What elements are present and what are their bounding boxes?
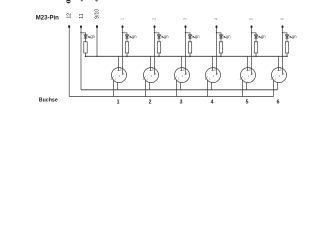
svg-text:3: 3 <box>119 74 121 78</box>
wire: 0V bus drop to socket 4 <box>212 56 214 70</box>
wire: 0V bus drop to socket 3 <box>181 56 183 70</box>
svg-text:gn: gn <box>164 34 169 39</box>
svg-text:1: 1 <box>209 76 211 80</box>
svg-text:2: 2 <box>249 68 251 72</box>
wire: LED branch tap D5 <box>251 32 256 35</box>
svg-text:4: 4 <box>217 71 219 75</box>
socket circle Buchse 4 <box>206 68 221 83</box>
svg-text:1: 1 <box>147 76 149 80</box>
svg-text:5: 5 <box>246 100 249 106</box>
svg-text:3: 3 <box>183 17 188 20</box>
wire: +24V rail <box>81 89 278 91</box>
node: M23 pin 6 terminal dot <box>282 25 284 28</box>
wire: signal 1 vertical <box>122 27 123 75</box>
wire: socket 2 to bottom 0V rail <box>145 80 147 97</box>
socket 6 pin numbers and ticks <box>271 68 285 81</box>
symbol: minus terminal over pin 12 <box>66 0 70 3</box>
wire: socket 5 to +24V rail <box>246 83 248 90</box>
svg-text:4: 4 <box>186 71 188 75</box>
svg-text:gn: gn <box>132 34 137 39</box>
svg-text:M23-Pin: M23-Pin <box>36 15 59 21</box>
wire: pin 12 (0V) down left side <box>68 27 70 97</box>
svg-text:4: 4 <box>214 17 219 20</box>
socket circle Buchse 5 <box>241 68 256 83</box>
socket circle Buchse 2 <box>144 68 159 83</box>
svg-text:2: 2 <box>214 68 216 72</box>
svg-text:gn: gn <box>195 34 200 39</box>
svg-text:3: 3 <box>151 74 153 78</box>
wire: socket 3 to +24V rail <box>180 83 182 90</box>
svg-text:3: 3 <box>182 74 184 78</box>
svg-text:1: 1 <box>178 76 180 80</box>
svg-text:2: 2 <box>183 68 185 72</box>
svg-text:3: 3 <box>279 74 281 78</box>
svg-text:3: 3 <box>248 74 250 78</box>
resistor D3 <box>188 42 191 57</box>
svg-text:4: 4 <box>155 71 157 75</box>
LED D5 <box>254 35 260 42</box>
wire: 0V bus (top horizontal) <box>86 55 288 57</box>
svg-text:1: 1 <box>244 76 246 80</box>
wire: LED branch tap D2 <box>154 32 159 35</box>
svg-text:1: 1 <box>115 76 117 80</box>
wire: 0V bus drop to socket 1 <box>118 56 120 70</box>
svg-text:gn: gn <box>292 34 297 39</box>
svg-text:2: 2 <box>280 68 282 72</box>
svg-text:5: 5 <box>249 17 254 20</box>
wire: pin 9/10 (0V) to bus <box>96 27 98 57</box>
resistor D5 <box>254 42 257 57</box>
wire: LED branch tap D6 <box>282 32 287 35</box>
socket circle Buchse 1 <box>112 68 127 83</box>
svg-text:11: 11 <box>79 13 85 18</box>
svg-text:gn: gn <box>226 34 231 39</box>
socket 5 pin numbers and ticks <box>240 68 254 81</box>
node: M23 pin 3 terminal dot <box>185 25 187 28</box>
svg-text:4: 4 <box>283 71 285 75</box>
symbol: terminal over pin 9/10 (clipped) <box>95 0 98 2</box>
LED D3 <box>188 35 194 42</box>
wire: signal 2 vertical <box>154 27 155 75</box>
wire: bottom 0V rail <box>69 96 273 98</box>
resistor D1 <box>125 42 128 57</box>
wire: socket 1 to +24V rail <box>117 83 119 90</box>
LED D4 <box>219 35 225 42</box>
resistor D6 <box>285 42 288 57</box>
svg-text:4: 4 <box>252 71 254 75</box>
svg-text:2: 2 <box>120 68 122 72</box>
resistor D4 <box>219 42 222 57</box>
svg-text:gn: gn <box>261 34 266 39</box>
svg-text:2: 2 <box>152 68 154 72</box>
svg-text:6: 6 <box>280 17 285 20</box>
svg-text:gn: gn <box>90 34 95 39</box>
wire: signal 6 vertical <box>282 27 283 75</box>
wire: socket 4 to +24V rail <box>211 83 213 90</box>
node: M23 pin 4 terminal dot <box>216 25 218 28</box>
svg-text:Buchse: Buchse <box>39 98 58 104</box>
svg-text:2: 2 <box>149 100 152 106</box>
wire: socket 4 to bottom 0V rail <box>207 80 209 97</box>
svg-text:1: 1 <box>117 100 120 106</box>
wire: 0V bus drop to socket 5 <box>247 56 249 70</box>
wire: LED branch tap D3 <box>185 32 190 35</box>
wire: signal 5 vertical <box>251 27 252 75</box>
resistor D2 <box>157 42 160 57</box>
socket circle Buchse 3 <box>175 68 190 83</box>
wire: LED branch tap D1 <box>122 32 127 35</box>
symbol: terminal over pin 11 (clipped) <box>81 0 83 1</box>
svg-text:1: 1 <box>120 17 125 20</box>
wire: socket 2 to +24V rail <box>149 83 151 90</box>
LED power <box>84 35 90 42</box>
wire: 0V bus drop to socket 2 <box>150 56 152 70</box>
node: pin 11 terminal dot <box>80 25 82 28</box>
wire: socket 3 to bottom 0V rail <box>176 80 178 97</box>
svg-text:12: 12 <box>67 13 73 19</box>
wire: socket 6 to bottom 0V rail <box>273 80 275 97</box>
resistor power <box>84 42 87 57</box>
wire: signal 3 vertical <box>185 27 186 75</box>
wire: signal 4 vertical <box>216 27 217 75</box>
socket 1 pin numbers and ticks <box>111 68 125 81</box>
svg-text:6: 6 <box>277 100 280 106</box>
wire: socket 5 to bottom 0V rail <box>242 80 244 97</box>
svg-text:4: 4 <box>123 71 125 75</box>
node: M23 pin 5 terminal dot <box>251 25 253 28</box>
node: pin 12 terminal dot <box>68 25 70 28</box>
svg-text:2: 2 <box>152 17 157 20</box>
LED D6 <box>285 35 291 42</box>
LED D1 <box>125 35 131 42</box>
socket 4 pin numbers and ticks <box>205 68 219 81</box>
wire: LED branch tap power <box>80 32 85 35</box>
node: pin 9/10 terminal dot <box>96 25 98 28</box>
node: M23 pin 1 terminal dot <box>122 25 124 28</box>
socket 3 pin numbers and ticks <box>174 68 188 81</box>
wire: socket 1 to bottom 0V rail <box>113 80 115 97</box>
wire: socket 6 to +24V rail <box>277 83 279 90</box>
wire: pin 11 (+24V) vertical <box>80 27 82 90</box>
svg-text:4: 4 <box>211 100 214 106</box>
wire: 0V bus drop to socket 6 <box>278 56 280 70</box>
socket circle Buchse 6 <box>272 68 287 83</box>
socket 2 pin numbers and ticks <box>143 68 157 81</box>
wire: LED branch tap D4 <box>216 32 221 35</box>
svg-text:9/10: 9/10 <box>95 9 101 19</box>
svg-text:1: 1 <box>275 76 277 80</box>
LED D2 <box>157 35 163 42</box>
node: M23 pin 2 terminal dot <box>154 25 156 28</box>
svg-text:3: 3 <box>213 74 215 78</box>
svg-text:3: 3 <box>180 100 183 106</box>
